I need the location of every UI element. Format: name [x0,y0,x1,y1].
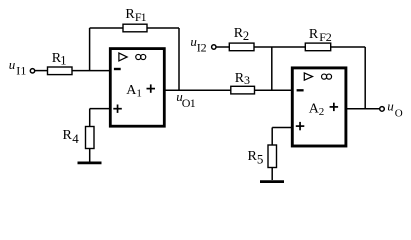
svg-text:R: R [63,128,73,143]
ground under R5 [260,180,284,183]
input terminal uI2 [212,45,216,49]
label A1 [126,83,142,99]
svg-text:2: 2 [326,30,332,44]
op-amp A2 infinity symbol [322,74,332,79]
op-amp A1 body [110,49,164,127]
wire RF2 right [331,46,366,48]
wire uI1 to R1 [35,70,48,72]
wire R5 to ground [271,168,273,181]
svg-text:R: R [309,27,319,42]
resistor R2 [229,43,254,51]
label A2 [309,102,325,118]
op-amp A1 infinity symbol [136,54,146,59]
op-amp A2 inverting input marker - [297,89,304,91]
svg-text:4: 4 [72,131,79,146]
wire RF2 down to A2 output [364,47,366,109]
wire R4 to ground [89,149,91,162]
output terminal uO [380,107,385,112]
op-amp A1 [110,49,164,127]
wire junction down to R3 net [271,47,273,90]
wire A2 noninverting input [272,127,292,129]
wire A1 noninverting input [90,108,110,110]
svg-text:O: O [395,107,403,119]
svg-text:1: 1 [20,64,26,78]
op-amp A2 triangle symbol [304,73,312,80]
label uI1 [9,57,27,78]
label uI2 [190,34,206,54]
label R5 [248,149,264,167]
op-amp A2 output marker + [330,103,339,111]
wire R2 to RF2 [254,46,305,48]
wire A2 output to terminal [346,108,380,110]
svg-text:u: u [9,57,16,72]
wire uI2 to R2 [216,46,229,48]
op-amp A1 output marker + [147,84,156,92]
op-amp A2 noninverting input marker + [296,122,305,130]
op-amp A1 inverting input marker - [114,68,121,70]
wire RF1 right [147,27,179,29]
label uO [387,98,403,119]
input terminal uI1 [30,69,34,73]
ground under R4 [78,161,102,164]
svg-text:1: 1 [190,96,196,110]
resistor RF2 [305,43,330,51]
label uO1 [176,89,196,110]
wire down to R4 [89,109,91,127]
wire A1 output to R3 [164,89,231,91]
wire down to R5 [271,128,273,146]
op-amp A2 body [292,68,346,146]
svg-text:5: 5 [257,152,264,167]
svg-text:1: 1 [136,87,142,99]
wire R1 to A1 inverting input [72,70,110,72]
label R1 [52,51,67,68]
svg-text:2: 2 [243,29,249,43]
label R2 [234,26,249,43]
resistor R1 [48,67,73,75]
svg-text:u: u [387,98,394,113]
resistor RF1 [123,24,147,32]
resistor R4 [86,127,95,149]
label RF1 [125,7,146,24]
resistor R5 [268,145,277,168]
svg-text:2: 2 [319,106,325,118]
label RF2 [309,27,332,44]
wire R3 to A2 inverting input [255,89,293,91]
wire junction up to RF1 [89,28,91,71]
svg-text:R: R [125,7,135,22]
wire RF1 left [90,27,123,29]
label R3 [235,71,250,87]
wire RF1 down to A1 output [178,28,180,90]
svg-text:1: 1 [141,10,147,24]
op-amp A1 noninverting input marker + [113,105,122,113]
label R4 [63,128,80,146]
resistor R3 [231,86,255,94]
op-amp A2 [292,68,346,146]
op-amp A1 triangle symbol [119,53,127,61]
svg-text:2: 2 [201,40,207,54]
svg-text:3: 3 [244,73,250,87]
svg-text:1: 1 [60,54,66,68]
